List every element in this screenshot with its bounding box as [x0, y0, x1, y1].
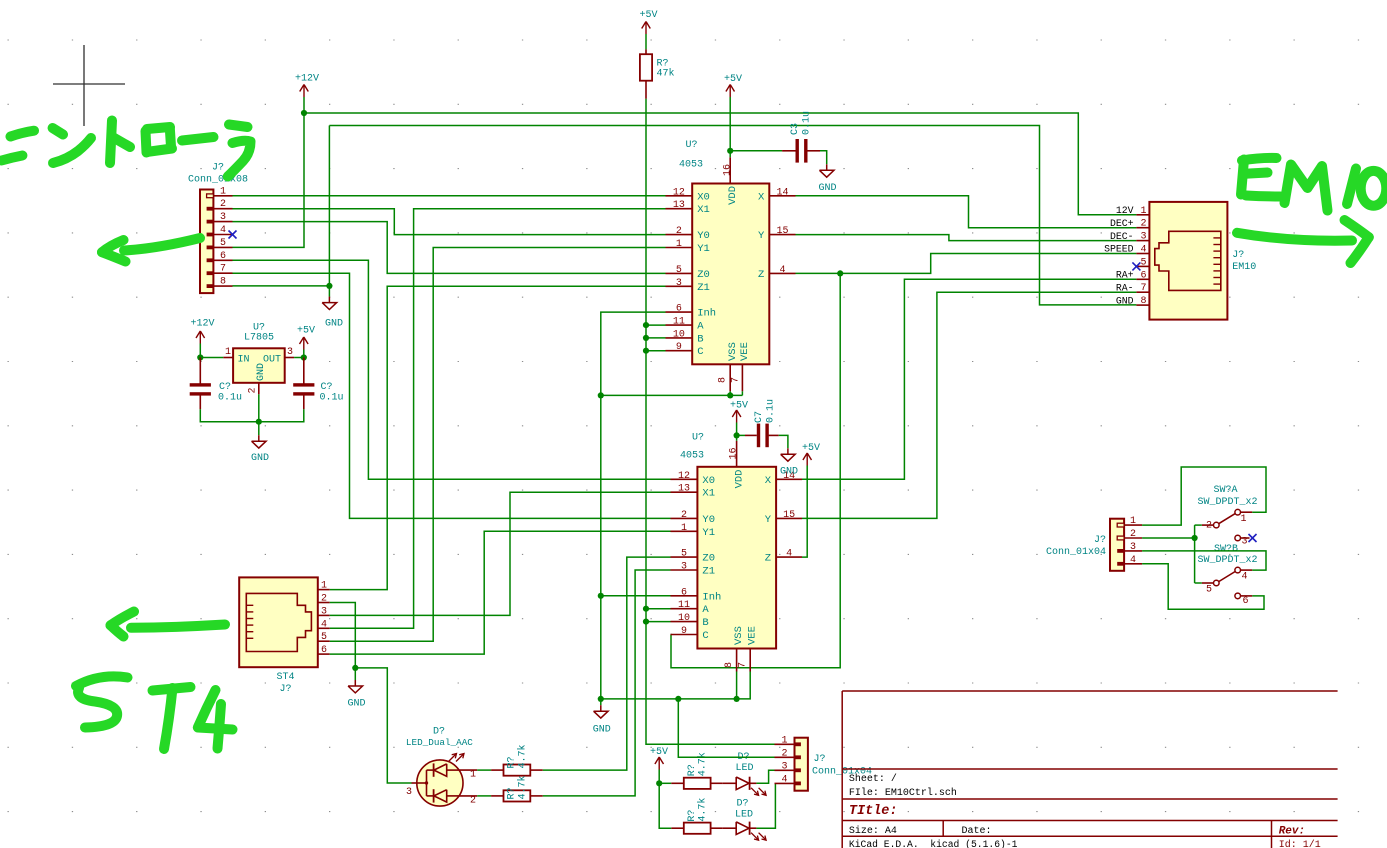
svg-text:GND: GND	[325, 319, 343, 330]
svg-text:+5V: +5V	[297, 326, 315, 337]
svg-text:1: 1	[1140, 206, 1146, 217]
switch SW?B SW_DPDT_x2	[1197, 544, 1257, 607]
ground GND at bus	[593, 699, 611, 736]
wire feeder upper row	[659, 782, 671, 784]
svg-text:C?: C?	[219, 382, 231, 393]
svg-text:TItle:: TItle:	[849, 804, 898, 819]
svg-text:3: 3	[781, 761, 787, 772]
wire J? pin6 to U2 X0	[233, 260, 671, 479]
svg-text:5: 5	[681, 549, 687, 560]
LED D? (upper)	[723, 752, 766, 795]
svg-text:4: 4	[781, 774, 787, 785]
svg-text:X: X	[765, 475, 772, 487]
annotation arrow to controller	[102, 238, 200, 262]
svg-text:1: 1	[676, 239, 682, 250]
svg-text:X0: X0	[697, 191, 710, 203]
svg-text:VDD: VDD	[733, 470, 745, 489]
svg-text:1: 1	[225, 347, 231, 358]
wire to U2 A	[646, 608, 671, 610]
ground GND at C7	[780, 448, 798, 477]
wire SW header pin1 to SW?A pin1	[1142, 467, 1266, 525]
svg-text:4.7k: 4.7k	[517, 744, 529, 768]
junction U2 VDD / C7	[734, 432, 740, 438]
svg-text:3: 3	[1140, 232, 1146, 243]
wire J? pin2 to U1 Y0	[233, 209, 666, 235]
capacitor C3 0.1u	[730, 111, 820, 163]
svg-text:Conn_01x08: Conn_01x08	[188, 175, 248, 186]
annotation ST4 4	[198, 690, 233, 749]
svg-text:7: 7	[731, 377, 742, 383]
svg-text:C7: C7	[754, 411, 765, 423]
capacitor C? 0.1u (output)	[293, 358, 343, 410]
svg-text:J?: J?	[1232, 250, 1244, 261]
wire U2 Inh to ground net	[601, 595, 671, 597]
svg-text:Y1: Y1	[702, 527, 715, 539]
resistor R? 47k	[640, 34, 675, 99]
svg-text:+5V: +5V	[730, 401, 748, 412]
svg-text:4: 4	[779, 265, 785, 276]
svg-text:2: 2	[470, 796, 476, 807]
wire ST4 pin2 to ground	[330, 603, 356, 668]
svg-text:8: 8	[220, 277, 226, 288]
wire ST4 pin6 to U2 Y1	[330, 531, 671, 654]
svg-text:GND: GND	[1116, 295, 1134, 306]
wire +12V down to J? pin5	[233, 113, 305, 247]
svg-text:2: 2	[676, 226, 682, 237]
svg-text:10: 10	[678, 613, 690, 624]
svg-text:C: C	[702, 630, 708, 642]
svg-text:C: C	[697, 346, 703, 358]
power flag +12V at U? L7805	[190, 319, 214, 344]
svg-text:ST4: ST4	[276, 672, 294, 683]
svg-text:Conn_01x04: Conn_01x04	[1046, 547, 1106, 558]
ground GND at J? pin8	[322, 286, 343, 330]
svg-text:J?: J?	[814, 754, 826, 765]
junction U1 pin10 B	[643, 335, 649, 341]
svg-text:Inh: Inh	[697, 308, 716, 320]
wire R? 47k pull-up net (A/B/C select)	[646, 99, 775, 745]
svg-text:5: 5	[1140, 257, 1146, 268]
wire C3 to ground	[820, 151, 827, 165]
svg-text:13: 13	[673, 200, 685, 211]
svg-text:Inh: Inh	[702, 591, 721, 603]
svg-text:2: 2	[220, 199, 226, 210]
wire GND bus to EM10 pin8	[329, 126, 1136, 305]
wire U1 Z to U2 C	[671, 273, 841, 667]
wire to U1 B	[646, 337, 666, 339]
svg-text:2: 2	[681, 510, 687, 521]
svg-text:U?: U?	[692, 433, 704, 444]
wire to U2 B	[646, 621, 671, 623]
wire D? pin1 to resistor	[477, 769, 491, 771]
wire U2 Z0 to D? resistor	[543, 557, 671, 770]
resistor R? 4.7k (dual LED lower)	[491, 775, 543, 801]
svg-text:2: 2	[1130, 529, 1136, 540]
svg-text:+12V: +12V	[190, 319, 214, 330]
junction +12V bus	[301, 110, 307, 116]
wire U2 Y to EM10 RA-	[802, 292, 1136, 518]
svg-text:0.1u: 0.1u	[766, 399, 777, 423]
wire J? pin3 to U1 Z0	[233, 222, 666, 274]
svg-text:Z1: Z1	[697, 282, 710, 294]
svg-text:4.7k: 4.7k	[697, 798, 709, 822]
svg-text:16: 16	[723, 164, 734, 176]
svg-text:EM10: EM10	[1232, 262, 1256, 273]
ground GND at C3	[818, 164, 836, 194]
svg-text:C3: C3	[790, 123, 801, 135]
connector J? Conn_01x08	[188, 163, 248, 294]
svg-text:6: 6	[321, 645, 327, 656]
svg-text:Y0: Y0	[697, 230, 710, 242]
svg-text:4.7k: 4.7k	[697, 752, 709, 776]
svg-text:4: 4	[1140, 245, 1146, 256]
wire J? pin7 to U2 Y0	[233, 273, 671, 518]
op-amp U? 4053 (upper analog multiplexer U1)	[666, 140, 796, 391]
wire U2 Z to +5V	[802, 466, 807, 558]
wire ground bus below U2	[601, 672, 750, 699]
svg-text:13: 13	[678, 484, 690, 495]
svg-text:12: 12	[678, 471, 690, 482]
wire ST4 ground to D? LED pin3	[355, 668, 411, 783]
junction L7805 ground	[256, 419, 262, 425]
svg-text:7: 7	[1140, 283, 1146, 294]
svg-text:2: 2	[1140, 219, 1146, 230]
svg-text:A: A	[697, 321, 704, 333]
svg-text:3: 3	[321, 606, 327, 617]
svg-text:Y0: Y0	[702, 514, 715, 526]
junction J? pin8 GND	[326, 283, 332, 289]
svg-text:16: 16	[729, 447, 740, 459]
wire +5V to U2 VDD	[736, 423, 738, 441]
junction +5V feeder	[656, 780, 662, 786]
junction ground bus / pin2 branch	[675, 696, 681, 702]
resistor R? 4.7k (lower LED)	[671, 798, 723, 834]
svg-text:7: 7	[220, 264, 226, 275]
wire to U1 C	[646, 350, 666, 352]
svg-text:Rev:: Rev:	[1279, 826, 1305, 838]
svg-text:4: 4	[1242, 572, 1248, 583]
wire ST4 pin3 to U2 X1	[330, 492, 671, 615]
svg-text:KiCad E.D.A. kicad (5.1.6)-1: KiCad E.D.A. kicad (5.1.6)-1	[849, 839, 1018, 848]
annotation katakana ra	[228, 125, 251, 177]
svg-text:Z1: Z1	[702, 566, 715, 578]
svg-text:DEC-: DEC-	[1110, 231, 1134, 242]
title block frame	[842, 691, 1337, 848]
LED D? (lower)	[723, 799, 766, 841]
ground GND at ST4	[347, 668, 365, 710]
svg-text:11: 11	[673, 317, 685, 328]
svg-text:5: 5	[1206, 585, 1212, 596]
svg-text:11: 11	[678, 600, 690, 611]
junction ST4 pin2 ground	[352, 665, 358, 671]
wire SW header pin3 to SW?B pin4	[1142, 551, 1266, 570]
svg-text:Z: Z	[765, 553, 771, 565]
svg-text:SW_DPDT_x2: SW_DPDT_x2	[1197, 555, 1257, 566]
junction SW?A/SW?B common	[1192, 535, 1198, 541]
svg-text:LED_Dual_AAC: LED_Dual_AAC	[406, 737, 473, 748]
svg-text:GND: GND	[347, 699, 365, 710]
svg-text:3: 3	[676, 278, 682, 289]
svg-text:0.1u: 0.1u	[802, 111, 813, 135]
svg-text:X1: X1	[702, 488, 715, 500]
connector J? ST4 jack	[239, 577, 330, 695]
wire U1 Y to EM10 DEC-	[796, 235, 1137, 241]
svg-text:X0: X0	[702, 475, 715, 487]
svg-text:VDD: VDD	[727, 186, 739, 205]
title block size/date row	[849, 825, 1305, 838]
svg-text:1: 1	[470, 770, 476, 781]
svg-text:Id: 1/1: Id: 1/1	[1279, 839, 1321, 848]
wire L7805 OUT to +5V	[294, 350, 304, 358]
regulator U? L7805	[223, 323, 294, 395]
svg-text:B: B	[702, 617, 708, 629]
svg-text:3: 3	[287, 347, 293, 358]
annotation katakana n	[53, 128, 91, 163]
svg-text:J?: J?	[279, 684, 291, 695]
svg-text:6: 6	[1243, 596, 1249, 607]
svg-text:6: 6	[220, 251, 226, 262]
power flag +5V feeder	[650, 747, 668, 770]
svg-text:VEE: VEE	[747, 626, 759, 645]
wire SW header pin2 to SW?A pin2 / SW?B pin5	[1142, 525, 1202, 583]
svg-text:0.1u: 0.1u	[218, 393, 242, 404]
svg-text:D?: D?	[736, 799, 748, 810]
svg-text:SW?A: SW?A	[1213, 485, 1237, 496]
svg-text:9: 9	[681, 626, 687, 637]
connector J? Conn_01x04 (switch header)	[1046, 516, 1142, 571]
wire U1 Z1 to ST4 pin1	[330, 286, 666, 589]
svg-text:Sheet: /: Sheet: /	[849, 773, 897, 785]
svg-text:4.7k: 4.7k	[517, 775, 529, 799]
svg-text:8: 8	[724, 662, 735, 668]
svg-text:6: 6	[676, 304, 682, 315]
wire D? pin2 to resistor	[477, 795, 491, 797]
ground GND below L7805	[251, 422, 269, 464]
svg-text:Z0: Z0	[702, 553, 715, 565]
svg-text:D?: D?	[433, 727, 445, 738]
svg-text:C?: C?	[321, 382, 333, 393]
svg-text:6: 6	[1140, 270, 1146, 281]
connector J? EM10 jack	[1104, 202, 1256, 320]
wire U1 X1 to ST4 pin4	[330, 209, 666, 629]
svg-text:3: 3	[1242, 537, 1248, 548]
power flag +5V at U2 Z	[802, 443, 820, 466]
svg-text:J?: J?	[212, 163, 224, 174]
svg-text:6: 6	[681, 587, 687, 598]
junction L7805 IN / C?	[197, 354, 203, 360]
svg-text:4: 4	[1130, 555, 1136, 566]
svg-text:4: 4	[220, 225, 226, 236]
svg-text:GND: GND	[593, 725, 611, 736]
junction U1 pin11 A	[643, 322, 649, 328]
svg-text:5: 5	[321, 632, 327, 643]
svg-text:3: 3	[406, 787, 412, 798]
svg-text:SPEED: SPEED	[1104, 244, 1134, 255]
wire U2 X to EM10 RA+	[802, 279, 1136, 479]
annotation katakana dash	[182, 137, 214, 141]
svg-text:2: 2	[781, 748, 787, 759]
wire +12V to L7805 IN	[200, 344, 223, 358]
svg-text:4: 4	[321, 619, 327, 630]
svg-text:GND: GND	[780, 467, 798, 478]
svg-text:FIle: EM10Ctrl.sch: FIle: EM10Ctrl.sch	[849, 787, 957, 799]
svg-text:Size: A4: Size: A4	[849, 825, 897, 837]
wire +5V feeder	[658, 770, 660, 784]
wire SW header pin4 to SW?B pin6	[1142, 564, 1264, 610]
power flag +5V at L7805 OUT	[297, 326, 315, 350]
svg-text:1: 1	[781, 735, 787, 746]
svg-text:VEE: VEE	[739, 342, 751, 361]
svg-text:2: 2	[321, 594, 327, 605]
svg-text:SW_DPDT_x2: SW_DPDT_x2	[1197, 497, 1257, 508]
svg-text:15: 15	[776, 226, 788, 237]
svg-text:J?: J?	[1094, 535, 1106, 546]
svg-text:47k: 47k	[657, 68, 675, 80]
svg-text:R?: R?	[507, 787, 518, 799]
svg-text:4053: 4053	[680, 451, 704, 462]
annotation ST4 S	[76, 676, 128, 727]
switch SW?A SW_DPDT_x2	[1197, 485, 1257, 547]
svg-text:1: 1	[220, 186, 226, 197]
svg-text:3: 3	[1130, 542, 1136, 553]
svg-text:GND: GND	[251, 453, 269, 464]
svg-text:R?: R?	[687, 764, 698, 776]
svg-text:Y: Y	[765, 514, 772, 526]
cursor crosshair	[53, 45, 125, 126]
annotation EM10 E	[1241, 158, 1281, 197]
power flag +5V above R?	[639, 10, 657, 34]
annotation katakana to	[110, 121, 130, 164]
LED D? LED_Dual_AAC	[406, 727, 477, 807]
svg-text:B: B	[697, 333, 703, 345]
svg-text:10: 10	[673, 329, 685, 340]
resistor R? 4.7k (upper LED)	[671, 752, 723, 789]
svg-text:4053: 4053	[679, 160, 703, 171]
power flag +5V at U2 VDD	[730, 401, 748, 423]
junction U2 pin10 B	[643, 619, 649, 625]
annotation EM10 M	[1285, 165, 1328, 211]
annotation arrow to EM10	[1237, 220, 1369, 263]
wire U1 Z to EM10 SPEED	[796, 254, 1137, 274]
annotation katakana ro	[146, 127, 173, 153]
svg-text:VSS: VSS	[733, 626, 745, 645]
power flag +5V at U1 VDD	[724, 74, 742, 97]
svg-text:9: 9	[676, 342, 682, 353]
svg-text:+5V: +5V	[802, 443, 820, 454]
svg-text:GND: GND	[818, 183, 836, 194]
svg-text:R?: R?	[507, 756, 518, 768]
junction U2 VSS	[734, 696, 740, 702]
svg-text:Date:: Date:	[962, 826, 992, 837]
svg-text:Y1: Y1	[697, 243, 710, 255]
svg-text:Z0: Z0	[697, 269, 710, 281]
wire +12V bus to EM10 pin1	[304, 113, 1136, 215]
svg-text:+12V: +12V	[295, 74, 319, 85]
svg-text:R?: R?	[687, 810, 698, 822]
capacitor C? 0.1u (input)	[190, 358, 242, 410]
svg-text:1: 1	[321, 581, 327, 592]
svg-text:1: 1	[1130, 516, 1136, 527]
junction ground bus left	[598, 696, 604, 702]
wire feeder to lower row	[659, 783, 671, 828]
annotation katakana ko	[2, 131, 35, 161]
junction L7805 OUT	[301, 354, 307, 360]
connector J? Conn_01x04 (LED header)	[775, 735, 873, 790]
no-connect EM10 pin5	[1132, 262, 1140, 270]
svg-text:14: 14	[776, 187, 788, 198]
title block sheet text	[849, 773, 957, 799]
svg-text:7: 7	[738, 662, 749, 668]
svg-text:IN: IN	[238, 355, 250, 366]
svg-text:U?: U?	[685, 140, 697, 151]
svg-text:5: 5	[220, 238, 226, 249]
power flag +12V	[295, 74, 319, 98]
svg-text:3: 3	[681, 562, 687, 573]
wire upper LED to J? pin3	[756, 770, 774, 783]
annotation EM10 0	[1361, 171, 1387, 206]
junction U1 VSS	[727, 392, 733, 398]
junction U1 Z branch	[837, 270, 843, 276]
svg-text:2: 2	[1206, 521, 1212, 532]
svg-text:DEC+: DEC+	[1110, 218, 1134, 229]
annotation EM10 1	[1347, 169, 1356, 205]
wire GND bus down to J? pin8	[233, 126, 330, 286]
capacitor C7 0.1u	[737, 399, 779, 447]
svg-text:12: 12	[673, 187, 685, 198]
wire U1 Y1 to ST4 pin5	[330, 248, 666, 642]
svg-text:SW?B: SW?B	[1214, 544, 1238, 555]
junction U2 pin11 A	[643, 606, 649, 612]
svg-text:4: 4	[786, 549, 792, 560]
no-connect SW?A pin3	[1249, 534, 1257, 542]
annotation ST4 T	[153, 687, 191, 749]
annotation arrow to ST4	[111, 612, 226, 637]
svg-text:12V: 12V	[1116, 205, 1134, 216]
wire J? pin1 to U1 X0	[233, 195, 666, 197]
svg-text:2: 2	[248, 387, 259, 393]
svg-text:5: 5	[676, 265, 682, 276]
wire to U1 A	[646, 324, 666, 326]
svg-text:Z: Z	[758, 269, 764, 281]
svg-text:X1: X1	[697, 204, 710, 216]
svg-text:X: X	[758, 191, 765, 203]
wire +5V to U1 VDD	[729, 97, 731, 157]
wire ground bus to J? pin2	[678, 699, 774, 757]
title block Title label	[849, 804, 898, 819]
svg-text:LED: LED	[735, 763, 753, 774]
wire U1 VSS/VEE/Inh ground link	[601, 312, 743, 699]
no-connect J? pin4	[229, 231, 237, 239]
wire L7805 ground rail	[200, 394, 303, 421]
svg-text:LED: LED	[735, 810, 753, 821]
svg-text:3: 3	[220, 212, 226, 223]
wire lower LED to J? pin4	[756, 783, 775, 828]
svg-text:+5V: +5V	[650, 747, 668, 758]
junction U1 VDD / C3	[727, 148, 733, 154]
svg-text:15: 15	[783, 510, 795, 521]
svg-text:+5V: +5V	[639, 10, 657, 21]
svg-text:+5V: +5V	[724, 74, 742, 85]
svg-text:0.1u: 0.1u	[320, 393, 344, 404]
title block kicad row	[849, 839, 1321, 848]
svg-text:Y: Y	[758, 230, 765, 242]
svg-text:L7805: L7805	[244, 333, 274, 344]
svg-text:8: 8	[718, 377, 729, 383]
junction U2 Inh	[598, 593, 604, 599]
svg-text:8: 8	[1140, 296, 1146, 307]
op-amp U? 4053 (lower analog multiplexer U2)	[671, 433, 803, 672]
svg-text:VSS: VSS	[727, 342, 739, 361]
